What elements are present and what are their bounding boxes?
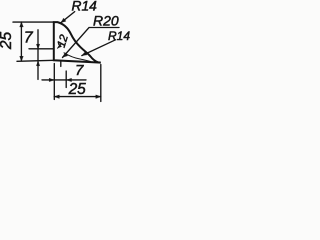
concave arc lower construction stroke — [64, 53, 91, 62]
svg-text:25: 25 — [68, 81, 87, 98]
leader R14 bottom — [82, 40, 116, 56]
leader R14 top — [61, 12, 75, 23]
svg-text:25: 25 — [0, 32, 15, 51]
dimension 25 bottom: line with arrowheads — [54, 96, 101, 98]
svg-text:R14: R14 — [72, 0, 98, 14]
svg-text:7: 7 — [24, 29, 34, 46]
extension line, top edge extended left — [13, 21, 54, 23]
dimension 25 left: arrowheads — [20, 22, 23, 27]
dimension 7 bottom: extension lines — [61, 61, 66, 87]
small arrow near 12 note — [58, 44, 62, 49]
outline of template part (thick) — [54, 22, 101, 63]
svg-text:7: 7 — [75, 62, 84, 79]
dimension 7 bottom: line with arrowheads — [42, 79, 86, 81]
dimension 25 left: line — [20, 22, 22, 61]
dimension 25 bottom: extension lines — [54, 64, 101, 102]
svg-text:R14: R14 — [108, 29, 130, 43]
dimension 7 left: arrow line — [37, 30, 39, 80]
extension line, bottom edge extended left — [17, 60, 54, 61]
dimension 7 left: extension line — [29, 48, 54, 50]
leader R20 with shelf — [63, 28, 120, 58]
svg-text:R20: R20 — [93, 13, 119, 29]
